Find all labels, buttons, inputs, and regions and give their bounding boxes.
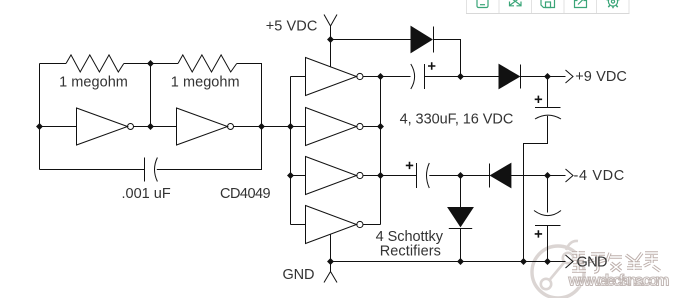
- svg-text:+5 VDC: +5 VDC: [266, 19, 318, 35]
- wire out3 to C4: [381, 175, 417, 177]
- wire out1 to C2: [381, 76, 411, 78]
- wire C2 to D2: [425, 76, 500, 78]
- wire C5 to ground rail: [547, 226, 549, 262]
- toolbar icon gear: [606, 0, 619, 8]
- op-amp U1E buffer 3: [306, 157, 357, 195]
- node +9 VDC connector: [566, 70, 574, 83]
- diode D1: [411, 27, 432, 53]
- wire U1A output: [134, 126, 177, 128]
- wire R2 to right corner down: [237, 64, 262, 127]
- capacitor C1 .001uF: [144, 158, 146, 182]
- svg-text:GND: GND: [577, 255, 608, 271]
- node -4 VDC connector: [566, 169, 574, 182]
- svg-text:-4 VDC: -4 VDC: [574, 168, 625, 184]
- op-amp U1B inverter: [177, 108, 228, 145]
- wire input bus: [290, 77, 292, 225]
- svg-text:4, 330uF, 16 VDC: 4, 330uF, 16 VDC: [400, 111, 514, 127]
- wire out3: [363, 175, 380, 177]
- toolbar icon tablet: [477, 0, 488, 8]
- diode D3: [489, 164, 491, 188]
- wire D4 branch down: [460, 176, 462, 208]
- wire C1 right: [157, 127, 262, 170]
- svg-text:4 Schottky: 4 Schottky: [376, 229, 444, 245]
- wire inverter U1A input: [40, 126, 77, 128]
- ground rail: [331, 261, 566, 263]
- toolbar icon floppy: [541, 0, 555, 8]
- node +5 VDC connector: [324, 15, 337, 40]
- svg-text:1 megohm: 1 megohm: [59, 74, 128, 90]
- resistor R2 1 megohm: [178, 55, 237, 72]
- diode D4: [448, 208, 473, 227]
- wire left rail: [39, 64, 41, 170]
- svg-text:www.elecfans.com: www.elecfans.com: [568, 272, 670, 289]
- wire out1: [363, 76, 380, 78]
- wire C3 jog to ground: [524, 116, 548, 262]
- wire out4: [363, 224, 380, 226]
- wire D4 to ground rail: [460, 229, 462, 262]
- op-amp U1A inverter: [77, 108, 128, 145]
- wire D1 to corner down: [434, 40, 461, 77]
- wire +5V to U1C power pin: [330, 40, 332, 67]
- watermark characters: [572, 251, 660, 272]
- wire U1B output to bus: [234, 126, 306, 128]
- wire output bus: [380, 77, 382, 225]
- op-amp U1C buffer 1: [306, 58, 357, 96]
- svg-text:Rectifiers: Rectifiers: [380, 244, 441, 260]
- svg-text:+9 VDC: +9 VDC: [575, 69, 627, 85]
- wire between resistors: [124, 63, 178, 65]
- wire bottom left: [40, 169, 145, 171]
- wire stub in1: [291, 76, 306, 78]
- wire +5V rail right: [331, 39, 412, 41]
- resistor R1 1 megohm: [66, 55, 124, 72]
- toolbar icon swap arrows: [510, 0, 522, 6]
- wire U1F power pin to ground: [330, 234, 332, 261]
- capacitor C2 330uF: [411, 64, 415, 89]
- ground connector GND: [324, 262, 337, 283]
- op-amp U1D buffer 2: [306, 108, 357, 146]
- diode D2: [499, 65, 520, 89]
- capacitor C5 filter -4V: [534, 211, 561, 216]
- node GND right connector: [566, 255, 574, 268]
- op-amp U1F buffer 4: [306, 206, 357, 244]
- wire top-left horizontal: [40, 63, 67, 65]
- svg-text:GND: GND: [283, 267, 315, 283]
- capacitor C3 filter +9V: [535, 107, 561, 109]
- wire D2 to +9VDC: [521, 76, 566, 78]
- wire stub in4: [291, 224, 306, 226]
- wire +9V filter down: [547, 77, 549, 108]
- wire -4V filter down: [547, 176, 549, 213]
- wire D3 to -4VDC: [511, 175, 566, 177]
- wire C4 to D3: [429, 175, 489, 177]
- toolbar grid: [466, 0, 630, 14]
- svg-text:.001 uF: .001 uF: [122, 186, 171, 202]
- toolbar icon export: [575, 0, 587, 8]
- svg-text:1 megohm: 1 megohm: [171, 74, 240, 90]
- wire out2: [363, 126, 380, 128]
- wire feedback node R1R2 down: [150, 64, 152, 127]
- svg-text:CD4049: CD4049: [220, 186, 271, 202]
- wire stub in3: [291, 175, 306, 177]
- watermark logo circle: [532, 241, 584, 298]
- capacitor C4 330uF: [406, 162, 413, 169]
